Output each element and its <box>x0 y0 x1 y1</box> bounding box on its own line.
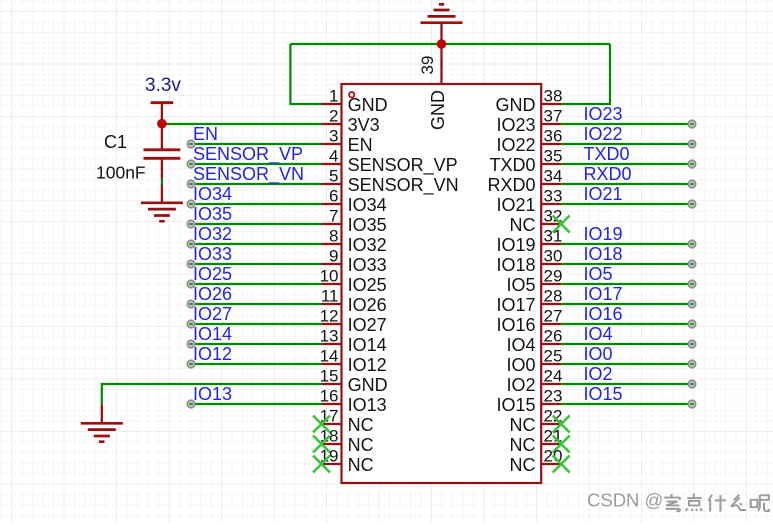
svg-text:27: 27 <box>544 307 563 326</box>
pin 30 name IO18 <box>496 255 535 275</box>
svg-text:25: 25 <box>544 347 563 366</box>
wire IO15 <box>561 403 692 405</box>
svg-text:34: 34 <box>544 167 563 186</box>
svg-text:TXD0: TXD0 <box>584 144 630 164</box>
node endpoint TXD0 <box>688 160 696 168</box>
svg-text:12: 12 <box>320 307 339 326</box>
pin 27 name IO16 <box>496 315 535 335</box>
svg-text:IO26: IO26 <box>348 295 387 315</box>
pin 35 number <box>544 147 563 166</box>
pin 23 IO15 stub <box>541 403 561 405</box>
wire IO23 <box>561 123 692 125</box>
svg-text:11: 11 <box>321 287 339 306</box>
net label IO4 <box>584 324 613 344</box>
pin 25 IO0 stub <box>541 363 561 365</box>
node endpoint IO23 <box>688 120 696 128</box>
pin 25 number <box>544 347 563 366</box>
pin 38 GND stub <box>541 103 561 105</box>
pin 38 name GND <box>496 95 536 115</box>
net label IO12 <box>193 344 232 364</box>
ground symbol below C1 <box>141 185 183 222</box>
svg-text:IO13: IO13 <box>193 384 232 404</box>
pin 4 number <box>329 147 338 166</box>
node endpoint IO33 <box>187 260 195 268</box>
pin 11 name IO26 <box>348 295 387 315</box>
pin 29 IO5 stub <box>541 283 561 285</box>
svg-text:IO15: IO15 <box>584 384 623 404</box>
svg-text:IO12: IO12 <box>348 355 387 375</box>
pin 20 NC stub <box>541 463 561 465</box>
pin 29 number <box>544 267 563 286</box>
svg-text:NC: NC <box>510 435 536 455</box>
junction on GND net at pin 39 <box>437 39 447 49</box>
svg-text:CSDN @: CSDN @ <box>587 490 663 511</box>
svg-text:38: 38 <box>544 87 563 106</box>
svg-text:IO32: IO32 <box>193 224 232 244</box>
svg-text:GND: GND <box>496 95 536 115</box>
wire IO5 <box>561 283 692 285</box>
pin 18 name NC <box>348 435 374 455</box>
svg-text:IO14: IO14 <box>193 324 232 344</box>
pin 32 number <box>544 207 563 226</box>
pin 15 name GND <box>348 375 388 395</box>
pin 37 name IO23 <box>496 115 535 135</box>
node endpoint IO13 <box>187 400 195 408</box>
svg-text:26: 26 <box>544 327 563 346</box>
net label IO33 <box>193 244 232 264</box>
net label IO25 <box>193 264 232 284</box>
pin 31 number <box>544 227 563 246</box>
node endpoint IO26 <box>187 300 195 308</box>
node endpoint IO22 <box>688 140 696 148</box>
net name 3.3v <box>145 75 181 96</box>
net label SENSOR_VP <box>193 144 303 165</box>
wire TXD0 <box>561 163 692 165</box>
wire IO18 <box>561 263 692 265</box>
svg-text:9: 9 <box>329 247 338 266</box>
pin 21 NC stub <box>541 443 561 445</box>
wire C1 to ground <box>161 179 163 185</box>
wire IO32 <box>191 243 322 245</box>
wire GND left drop to pin 1 <box>290 44 321 104</box>
wire IO22 <box>561 143 692 145</box>
wire IO13 <box>191 403 322 405</box>
svg-text:IO2: IO2 <box>506 375 535 395</box>
node endpoint IO34 <box>187 200 195 208</box>
svg-text:IO21: IO21 <box>584 184 623 204</box>
node endpoint IO5 <box>688 280 696 288</box>
svg-text:IO32: IO32 <box>348 235 387 255</box>
pin 28 IO17 stub <box>541 303 561 305</box>
pin 6 IO34 stub <box>322 203 342 205</box>
svg-text:7: 7 <box>329 207 338 226</box>
svg-text:NC: NC <box>510 415 536 435</box>
pin 2 3V3 stub <box>322 123 342 125</box>
node endpoint IO12 <box>187 360 195 368</box>
svg-text:IO25: IO25 <box>193 264 232 284</box>
pin 39 number <box>418 56 437 75</box>
wire IO33 <box>191 263 322 265</box>
svg-text:1: 1 <box>329 87 338 106</box>
svg-text:IO5: IO5 <box>506 275 535 295</box>
svg-text:C1: C1 <box>104 132 127 152</box>
pin 9 number <box>329 247 338 266</box>
node endpoint IO16 <box>688 320 696 328</box>
svg-text:36: 36 <box>544 127 563 146</box>
svg-text:31: 31 <box>544 227 563 246</box>
pin 9 IO33 stub <box>322 263 342 265</box>
svg-text:GND: GND <box>348 375 388 395</box>
pin 2 name 3V3 <box>348 115 380 135</box>
svg-text:NC: NC <box>510 215 536 235</box>
svg-text:13: 13 <box>320 327 339 346</box>
svg-text:SENSOR_VP: SENSOR_VP <box>348 155 458 176</box>
svg-text:IO27: IO27 <box>348 315 387 335</box>
net label TXD0 <box>584 144 630 164</box>
svg-text:GND: GND <box>428 90 448 130</box>
pin 23 number <box>544 387 563 406</box>
wire IO14 <box>191 343 322 345</box>
net label IO17 <box>584 284 623 304</box>
svg-text:8: 8 <box>329 227 338 246</box>
net label IO23 <box>584 104 623 124</box>
pin 33 number <box>544 187 563 206</box>
svg-text:IO34: IO34 <box>348 195 387 215</box>
capacitor C1 <box>144 124 181 179</box>
svg-text:IO35: IO35 <box>348 215 387 235</box>
svg-text:IO35: IO35 <box>193 204 232 224</box>
svg-text:IO23: IO23 <box>584 104 623 124</box>
pin 16 IO13 stub <box>322 403 342 405</box>
wire SENSOR_VN <box>191 183 322 185</box>
svg-text:NC: NC <box>348 455 374 475</box>
pin 7 number <box>329 207 338 226</box>
svg-text:SENSOR_VN: SENSOR_VN <box>193 164 304 185</box>
svg-text:IO22: IO22 <box>584 124 623 144</box>
svg-text:SENSOR_VP: SENSOR_VP <box>193 144 303 165</box>
svg-text:14: 14 <box>320 347 339 366</box>
svg-text:IO0: IO0 <box>506 355 535 375</box>
pin 17 number <box>320 407 339 426</box>
pin 14 number <box>320 347 339 366</box>
no-connect X pin 20 <box>553 456 570 473</box>
svg-text:37: 37 <box>544 107 563 126</box>
pin 34 name RXD0 <box>487 175 535 195</box>
pin 20 number <box>544 447 563 466</box>
pin 14 name IO12 <box>348 355 387 375</box>
net label IO35 <box>193 204 232 224</box>
node endpoint EN <box>187 140 195 148</box>
pin 7 name IO35 <box>348 215 387 235</box>
wire RXD0 <box>561 183 692 185</box>
svg-text:100nF: 100nF <box>96 163 146 183</box>
wire IO27 <box>191 323 322 325</box>
svg-text:IO19: IO19 <box>584 224 623 244</box>
svg-text:EN: EN <box>193 124 218 144</box>
pin 1 indicator dot <box>349 92 354 97</box>
pin 16 name IO13 <box>348 395 387 415</box>
net label IO19 <box>584 224 623 244</box>
node endpoint IO0 <box>688 360 696 368</box>
pin 8 IO32 stub <box>322 243 342 245</box>
net label IO14 <box>193 324 232 344</box>
net label SENSOR_VN <box>193 164 304 185</box>
wire from top ground to pin 39 <box>440 24 442 84</box>
pin 19 name NC <box>348 455 374 475</box>
svg-text:TXD0: TXD0 <box>489 155 535 175</box>
pin 36 IO22 stub <box>541 143 561 145</box>
net label IO18 <box>584 244 623 264</box>
svg-text:NC: NC <box>348 435 374 455</box>
pin 13 IO14 stub <box>322 343 342 345</box>
wire GND from pin 15 <box>102 384 322 405</box>
svg-text:IO33: IO33 <box>193 244 232 264</box>
pin 10 name IO25 <box>348 275 387 295</box>
no-connect X pin 19 <box>313 456 330 473</box>
svg-text:2: 2 <box>329 107 338 126</box>
pin 1 number <box>329 87 338 106</box>
pin 33 name IO21 <box>496 195 535 215</box>
node endpoint IO25 <box>187 280 195 288</box>
pin 10 IO25 stub <box>322 283 342 285</box>
pin 37 IO23 stub <box>541 123 561 125</box>
net label IO2 <box>584 364 613 384</box>
pin 15 number <box>320 367 339 386</box>
pin 4 SENSOR_VP stub <box>322 163 342 165</box>
pin 21 name NC <box>510 435 536 455</box>
no-connect X pin 32 <box>553 216 570 233</box>
pin 32 name NC <box>510 215 536 235</box>
net label IO16 <box>584 304 623 324</box>
svg-text:NC: NC <box>510 455 536 475</box>
svg-text:IO19: IO19 <box>496 235 535 255</box>
pin 24 IO2 stub <box>541 383 561 385</box>
net label IO0 <box>584 344 613 364</box>
net label IO13 <box>193 384 232 404</box>
pin 25 name IO0 <box>506 355 535 375</box>
pin 31 IO19 stub <box>541 243 561 245</box>
wire GND horizontal top <box>290 43 610 45</box>
node endpoint IO21 <box>688 200 696 208</box>
pin 1 name GND <box>348 95 388 115</box>
svg-text:28: 28 <box>544 287 563 306</box>
node endpoint IO32 <box>187 240 195 248</box>
node endpoint IO35 <box>187 220 195 228</box>
pin 35 name TXD0 <box>489 155 535 175</box>
pin 39 name GND (vertical) <box>428 90 448 130</box>
svg-text:IO5: IO5 <box>584 264 613 284</box>
node endpoint RXD0 <box>688 180 696 188</box>
pin 32 NC stub <box>541 223 561 225</box>
svg-text:3: 3 <box>329 127 338 146</box>
pin 26 number <box>544 327 563 346</box>
pin 23 name IO15 <box>496 395 535 415</box>
svg-text:RXD0: RXD0 <box>584 164 632 184</box>
svg-text:IO25: IO25 <box>348 275 387 295</box>
net label IO15 <box>584 384 623 404</box>
svg-text:IO34: IO34 <box>193 184 232 204</box>
svg-text:IO18: IO18 <box>496 255 535 275</box>
wire IO4 <box>561 343 692 345</box>
pin 17 name NC <box>348 415 374 435</box>
no-connect X pin 17 <box>313 416 330 433</box>
pin 16 number <box>320 387 339 406</box>
pin 28 name IO17 <box>496 295 535 315</box>
svg-text:IO2: IO2 <box>584 364 613 384</box>
pin 18 number <box>320 427 339 446</box>
svg-text:IO17: IO17 <box>496 295 535 315</box>
svg-text:IO12: IO12 <box>193 344 232 364</box>
pin 14 IO12 stub <box>322 363 342 365</box>
svg-text:EN: EN <box>348 135 373 155</box>
node endpoint SENSOR_VP <box>187 160 195 168</box>
no-connect X pin 18 <box>313 436 330 453</box>
pin 36 name IO22 <box>496 135 535 155</box>
pin 21 number <box>544 427 563 446</box>
pin 10 number <box>320 267 339 286</box>
net label IO34 <box>193 184 232 204</box>
svg-text:39: 39 <box>418 56 437 75</box>
svg-text:IO26: IO26 <box>193 284 232 304</box>
svg-text:GND: GND <box>348 95 388 115</box>
pin 34 RXD0 stub <box>541 183 561 185</box>
pin 18 NC stub <box>322 443 342 445</box>
net label IO32 <box>193 224 232 244</box>
svg-text:24: 24 <box>544 367 563 386</box>
pin 12 IO27 stub <box>322 323 342 325</box>
pin 9 name IO33 <box>348 255 387 275</box>
node endpoint IO4 <box>688 340 696 348</box>
svg-text:29: 29 <box>544 267 563 286</box>
node endpoint IO17 <box>688 300 696 308</box>
svg-text:IO16: IO16 <box>496 315 535 335</box>
ground symbol bottom left <box>81 405 123 442</box>
pin 27 IO16 stub <box>541 323 561 325</box>
pin 22 NC stub <box>541 423 561 425</box>
wire IO0 <box>561 363 692 365</box>
pin 13 name IO14 <box>348 335 387 355</box>
pin 4 name SENSOR_VP <box>348 155 458 176</box>
node endpoint IO18 <box>688 260 696 268</box>
svg-text:IO22: IO22 <box>496 135 535 155</box>
pin 22 name NC <box>510 415 536 435</box>
svg-text:3V3: 3V3 <box>348 115 380 135</box>
pin 8 number <box>329 227 338 246</box>
svg-text:5: 5 <box>329 167 338 186</box>
svg-text:35: 35 <box>544 147 563 166</box>
IC U1 ESP32 module body <box>342 84 542 483</box>
pin 26 IO4 stub <box>541 343 561 345</box>
no-connect X pin 22 <box>553 416 570 433</box>
svg-text:IO4: IO4 <box>506 335 535 355</box>
svg-text:RXD0: RXD0 <box>487 175 535 195</box>
reference designator C1 <box>104 132 127 152</box>
svg-text:IO14: IO14 <box>348 335 387 355</box>
svg-text:IO33: IO33 <box>348 255 387 275</box>
power flag 3.3v <box>151 103 174 124</box>
svg-text:IO13: IO13 <box>348 395 387 415</box>
node endpoint IO15 <box>688 400 696 408</box>
pin 13 number <box>320 327 339 346</box>
pin 19 NC stub <box>322 463 342 465</box>
pin 35 TXD0 stub <box>541 163 561 165</box>
net label IO22 <box>584 124 623 144</box>
wire IO35 <box>191 223 322 225</box>
node endpoint IO14 <box>187 340 195 348</box>
node endpoint IO2 <box>688 380 696 388</box>
pin 31 name IO19 <box>496 235 535 255</box>
wire GND right drop to pin 38 <box>561 44 610 104</box>
pin 33 IO21 stub <box>541 203 561 205</box>
svg-text:15: 15 <box>320 367 339 386</box>
svg-text:16: 16 <box>320 387 339 406</box>
pin 28 number <box>544 287 563 306</box>
svg-text:IO27: IO27 <box>193 304 232 324</box>
pin 19 number <box>320 447 339 466</box>
value label 100nF <box>96 163 146 183</box>
node endpoint SENSOR_VN <box>187 180 195 188</box>
wire EN <box>191 143 322 145</box>
svg-text:IO15: IO15 <box>496 395 535 415</box>
pin 5 SENSOR_VN stub <box>322 183 342 185</box>
svg-text:IO17: IO17 <box>584 284 623 304</box>
pin 3 number <box>329 127 338 146</box>
svg-text:IO18: IO18 <box>584 244 623 264</box>
pin 3 EN stub <box>322 143 342 145</box>
net label IO21 <box>584 184 623 204</box>
pin 30 number <box>544 247 563 266</box>
wire SENSOR_VP <box>191 163 322 165</box>
wire IO25 <box>191 283 322 285</box>
wire IO16 <box>561 323 692 325</box>
node endpoint IO27 <box>187 320 195 328</box>
pin 6 name IO34 <box>348 195 387 215</box>
wire 3V3 from power to pin 2 <box>162 123 322 125</box>
pin 22 number <box>544 407 563 426</box>
pin 11 number <box>321 287 339 306</box>
pin 26 name IO4 <box>506 335 535 355</box>
pin 38 number <box>544 87 563 106</box>
pin 12 name IO27 <box>348 315 387 335</box>
wire IO21 <box>561 203 692 205</box>
pin 17 NC stub <box>322 423 342 425</box>
wire IO12 <box>191 363 322 365</box>
net label IO5 <box>584 264 613 284</box>
junction on 3V3 net above C1 <box>157 119 167 129</box>
pin 12 number <box>320 307 339 326</box>
svg-text:6: 6 <box>329 187 338 206</box>
wire IO26 <box>191 303 322 305</box>
net label RXD0 <box>584 164 632 184</box>
net label IO27 <box>193 304 232 324</box>
pin 24 name IO2 <box>506 375 535 395</box>
svg-text:NC: NC <box>348 415 374 435</box>
svg-text:IO0: IO0 <box>584 344 613 364</box>
ground symbol GND (top, inverted) <box>421 4 463 22</box>
svg-text:30: 30 <box>544 247 563 266</box>
pin 6 number <box>329 187 338 206</box>
pin 2 number <box>329 107 338 126</box>
pin 36 number <box>544 127 563 146</box>
wire IO34 <box>191 203 322 205</box>
svg-text:23: 23 <box>544 387 563 406</box>
svg-text:10: 10 <box>320 267 339 286</box>
pin 5 number <box>329 167 338 186</box>
pin 20 name NC <box>510 455 536 475</box>
svg-text:4: 4 <box>329 147 338 166</box>
svg-text:33: 33 <box>544 187 563 206</box>
svg-text:SENSOR_VN: SENSOR_VN <box>348 175 459 196</box>
